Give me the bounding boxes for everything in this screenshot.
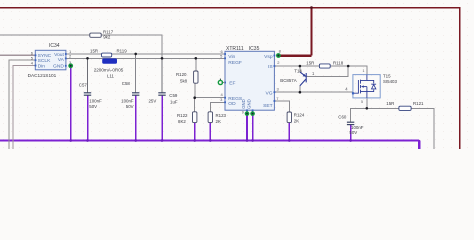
svg-text:R121: R121	[413, 101, 424, 106]
svg-text:VA: VA	[58, 57, 65, 63]
svg-text:100nF: 100nF	[121, 98, 134, 103]
wire C59 upper leg	[161, 58, 163, 92]
svg-text:GND: GND	[247, 99, 252, 109]
op-amp/IC XTR111 body	[225, 51, 274, 110]
resistor R117	[90, 33, 101, 37]
wire SET net to R124	[274, 101, 289, 112]
svg-text:EF: EF	[229, 81, 235, 87]
wire Vsp branch vertical	[311, 8, 313, 56]
transistor T14 BC857A	[300, 72, 306, 86]
T15 body diode arrow	[372, 85, 376, 89]
svg-text:15R: 15R	[306, 61, 314, 66]
IC34 DAC body	[35, 50, 66, 70]
wire purple drop XTR GND pin b	[252, 114, 254, 141]
capacitor C60	[347, 122, 354, 124]
XTR111 GND vertical pin names	[241, 99, 252, 109]
svg-text:1uF: 1uF	[170, 99, 178, 104]
node Vsp green dot	[276, 53, 281, 58]
XTR111 pin squares	[224, 53, 275, 111]
svg-text:Din: Din	[38, 63, 46, 69]
wire R121 net down to edge	[411, 108, 434, 149]
T15 mosfet arrow	[361, 85, 364, 87]
svg-text:15R: 15R	[386, 101, 394, 106]
wire R117 net right + drop	[101, 35, 162, 58]
wire R120 top lead	[195, 58, 197, 71]
svg-text:R120: R120	[176, 72, 187, 77]
node EF no-connect green donut	[218, 79, 225, 85]
wire purple drop C59	[161, 96, 163, 141]
XTR111 GND pin stubs	[247, 110, 253, 113]
wire drain net to C60	[351, 108, 367, 122]
transistor T14 emitter arrow	[303, 74, 306, 77]
svg-text:DAC121S101: DAC121S101	[28, 73, 57, 78]
T15 gate pad	[352, 92, 354, 94]
wire Din net	[13, 65, 35, 149]
wire Vsp horizontal to pin	[279, 54, 312, 57]
svg-text:2K: 2K	[216, 119, 221, 124]
node IC34 GND green dot	[68, 63, 73, 68]
wire T15 drain bottom pin	[366, 98, 368, 108]
svg-text:T15: T15	[383, 74, 391, 79]
wire REGS net	[195, 97, 225, 99]
svg-text:100nF: 100nF	[89, 98, 102, 103]
svg-text:8K2: 8K2	[178, 119, 186, 124]
node C58/Vout junction	[134, 53, 137, 56]
svg-text:T14: T14	[294, 68, 302, 73]
wire T14 collector vertical	[299, 86, 301, 93]
svg-text:R118: R118	[333, 61, 344, 66]
resistor R121	[399, 106, 411, 110]
resistor R123	[208, 112, 212, 123]
wire R117 net left	[0, 34, 90, 36]
inductor L11	[103, 59, 117, 63]
svg-text:GND: GND	[53, 63, 64, 69]
wire Vout net (DAC pin1 to XTR Vin)	[66, 53, 102, 55]
wire IS net	[274, 65, 320, 67]
wire drain net to R121	[367, 107, 399, 109]
svg-text:50V: 50V	[89, 104, 97, 109]
IC34 pin squares	[35, 53, 67, 67]
svg-text:R124: R124	[294, 113, 305, 118]
svg-text:REGF: REGF	[228, 60, 242, 66]
wire purple drop XTR GND pin a	[246, 114, 248, 141]
svg-text:Vin: Vin	[228, 54, 235, 60]
capacitor C57	[84, 93, 91, 95]
svg-text:L11: L11	[107, 74, 115, 79]
node REGS junction	[193, 96, 196, 99]
resistor R118	[319, 64, 330, 68]
resistor R120	[194, 71, 198, 83]
svg-text:SYNC: SYNC	[38, 53, 52, 59]
node XTR GND pin b green dot	[250, 111, 255, 116]
wire T14 base net up to R118 junction	[307, 66, 349, 76]
svg-text:GND: GND	[241, 99, 246, 109]
background grid	[0, 0, 474, 149]
node Vsp rail junction	[310, 6, 313, 9]
resistor R122	[193, 112, 197, 123]
svg-text:50V: 50V	[349, 130, 357, 135]
wire V+ right rail down	[459, 7, 461, 149]
svg-text:SET: SET	[263, 103, 273, 109]
node C59/R117 junction	[161, 57, 164, 60]
wire C57 upper leg	[87, 58, 89, 92]
wire OD net to R123	[210, 102, 225, 112]
node R120 top junction	[195, 57, 198, 60]
wire R120 bottom lead	[194, 83, 196, 98]
svg-text:R119: R119	[117, 49, 128, 54]
resistor R119	[102, 53, 112, 57]
wire SCLK net	[9, 60, 35, 149]
wire T14 emitter vertical	[299, 66, 301, 72]
node R118/T14 base junction	[347, 65, 350, 68]
wire purple drop R122	[194, 122, 196, 140]
svg-text:Vout: Vout	[54, 52, 64, 58]
node VG/T14 collector junction	[299, 91, 302, 94]
svg-text:SI5403: SI5403	[383, 79, 397, 84]
capacitor C59	[158, 93, 165, 95]
svg-text:5k8: 5k8	[180, 78, 188, 83]
wire purple drop R123	[209, 122, 211, 140]
svg-text:IC34: IC34	[49, 43, 60, 49]
IC34 pin numbers left	[31, 50, 34, 65]
XTR111 pin names	[228, 54, 273, 109]
node drain/C60/R121 junction	[366, 107, 369, 110]
svg-text:C59: C59	[169, 93, 178, 98]
node XTR GND pin a green dot	[245, 111, 250, 116]
wire C58 upper leg	[135, 54, 137, 93]
svg-text:R122: R122	[177, 113, 188, 118]
svg-text:1: 1	[363, 69, 365, 73]
node IS/T14 emitter junction	[299, 65, 302, 68]
svg-text:VG: VG	[266, 90, 273, 96]
svg-text:IS: IS	[268, 64, 273, 70]
svg-text:BC857A: BC857A	[280, 78, 296, 83]
capacitor C58	[132, 93, 139, 95]
svg-text:OD: OD	[228, 101, 236, 107]
wire purple drop R124	[288, 122, 290, 140]
wire GND bus corner down	[418, 141, 419, 150]
node bus junctions	[69, 139, 352, 142]
transistor T15 SI5403 body box	[353, 75, 380, 98]
wire R122 top lead	[194, 98, 196, 112]
svg-text:R123: R123	[216, 113, 227, 118]
svg-text:25V: 25V	[148, 98, 156, 103]
wire purple drop C60	[350, 125, 352, 141]
svg-text:15R: 15R	[90, 49, 98, 54]
svg-text:50V: 50V	[126, 104, 134, 109]
svg-text:SCLK: SCLK	[38, 58, 52, 64]
svg-text:9k2: 9k2	[103, 35, 111, 40]
svg-text:IC35: IC35	[249, 46, 260, 52]
svg-text:2K: 2K	[294, 118, 299, 123]
svg-text:C60: C60	[338, 115, 347, 120]
svg-text:C57: C57	[79, 83, 88, 88]
wire purple drop C58	[135, 96, 137, 141]
wire purple drop C57	[87, 96, 89, 141]
wire VA net (DAC pin2 to XTR REGF)	[66, 57, 225, 59]
svg-text:C58: C58	[122, 81, 131, 86]
wire purple drop IC34 GND	[70, 66, 72, 141]
IC34 pin numbers right	[69, 49, 72, 65]
wire GND bus	[0, 139, 419, 141]
wire VG gate net	[274, 91, 353, 93]
IC34 pin names	[38, 52, 65, 70]
svg-text:9: 9	[242, 110, 244, 114]
svg-text:2200mA-0R05: 2200mA-0R05	[94, 68, 124, 73]
junction dots	[86, 53, 368, 110]
node C57/VA junction	[86, 57, 89, 60]
wire V+ top rail	[0, 7, 460, 9]
svg-text:5: 5	[361, 100, 363, 104]
svg-text:XTR111: XTR111	[226, 46, 244, 52]
transistor T15 MOSFET symbol	[354, 75, 376, 98]
svg-text:Vsp: Vsp	[264, 54, 273, 60]
wire SYNC net	[0, 54, 35, 56]
XTR111 pin numbers	[220, 49, 281, 115]
resistor R124	[287, 112, 291, 123]
